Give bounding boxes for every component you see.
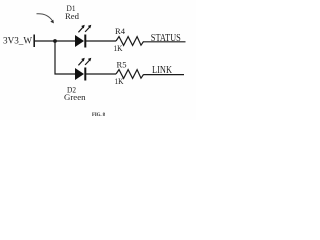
wire vertical junction to row 2: [55, 41, 76, 74]
svg-text:1K: 1K: [115, 76, 125, 86]
resistor R4: [116, 37, 144, 46]
wire 3V3_W to D1 anode: [34, 40, 75, 42]
leader arrow (callout arc): [37, 14, 54, 24]
LED D2: [75, 58, 91, 81]
junction node: [53, 39, 57, 43]
terminal bar: [33, 35, 35, 48]
svg-text:3V3_W: 3V3_W: [3, 37, 32, 47]
svg-text:LINK: LINK: [152, 65, 173, 76]
svg-text:Green: Green: [64, 92, 86, 102]
wire D1 cathode to R4: [86, 40, 116, 42]
svg-text:STATUS: STATUS: [151, 33, 181, 44]
svg-text:FIG. 8: FIG. 8: [92, 112, 105, 118]
resistor R5: [116, 70, 144, 79]
svg-text:1K: 1K: [114, 43, 124, 53]
wire R4 to STATUS: [144, 41, 186, 43]
svg-text:Red: Red: [65, 11, 80, 21]
wire R5 to LINK: [144, 74, 184, 76]
svg-text:R5: R5: [117, 60, 127, 70]
wire D2 cathode to R5: [86, 73, 116, 75]
LED D1: [75, 25, 91, 48]
svg-text:R4: R4: [115, 26, 126, 36]
